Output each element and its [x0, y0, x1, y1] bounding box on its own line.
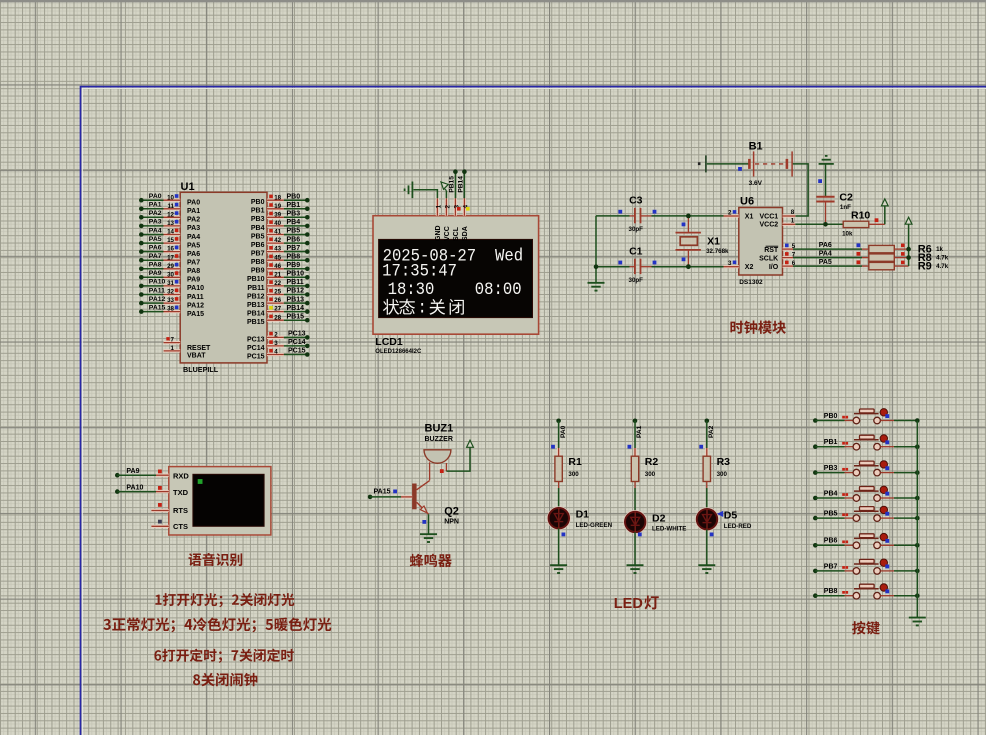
svg-text:PB5: PB5	[287, 228, 301, 235]
svg-text:SCLK: SCLK	[759, 255, 778, 262]
capacitor C3 30pF	[596, 195, 724, 234]
voice module pin RTS stub	[151, 503, 168, 511]
svg-text:300: 300	[645, 471, 656, 478]
LCD1 screen text line 4: status closed	[383, 298, 464, 318]
svg-text:PA15: PA15	[374, 489, 391, 496]
svg-text:PA8: PA8	[149, 262, 162, 269]
U1 pin 12 / net PA2 wire	[139, 210, 200, 224]
U1 pin 28 / net PB15 wire	[247, 313, 310, 326]
svg-text:PB8: PB8	[824, 588, 838, 595]
svg-text:32: 32	[167, 289, 174, 296]
wire net PB14 to LCD SDA	[463, 172, 465, 199]
power terminal (buzzer)	[446, 440, 473, 471]
net PA0 wire to R1	[551, 419, 567, 457]
svg-text:30pF: 30pF	[629, 226, 644, 233]
svg-text:PB8: PB8	[251, 259, 265, 266]
svg-text:39: 39	[274, 211, 281, 218]
svg-text:LED-GREEN: LED-GREEN	[576, 522, 613, 529]
svg-text:D2: D2	[652, 512, 666, 524]
svg-text:I/O: I/O	[769, 264, 779, 271]
svg-text:DS1302: DS1302	[739, 279, 763, 286]
push button PB8	[813, 584, 920, 599]
svg-text:2: 2	[445, 205, 452, 209]
U6 pin 8 (VCC1)	[783, 209, 796, 216]
LCD1 pin 1 GND	[435, 198, 443, 241]
svg-text:300: 300	[717, 471, 728, 478]
wire R2 to D2	[634, 482, 636, 512]
svg-text:PA4: PA4	[187, 234, 200, 241]
svg-text:RESET: RESET	[187, 345, 211, 352]
svg-text:43: 43	[274, 246, 281, 253]
svg-text:PB9: PB9	[287, 262, 301, 269]
svg-text:32.768k: 32.768k	[706, 248, 729, 255]
U1 pin 15 / net PA5 wire	[139, 236, 200, 250]
svg-text:PC15: PC15	[247, 353, 265, 360]
svg-text:C2: C2	[839, 191, 853, 203]
push button PB5	[813, 506, 920, 521]
svg-text:08:00: 08:00	[475, 279, 522, 299]
svg-text:PA10: PA10	[149, 279, 166, 286]
svg-text:4.7k: 4.7k	[936, 254, 949, 261]
wire B1 to U6 VCC1	[793, 164, 808, 216]
svg-text:PA6: PA6	[149, 244, 162, 251]
svg-text:PA4: PA4	[149, 227, 162, 234]
U1 pin 45 / net PB8 wire	[251, 253, 310, 266]
svg-text:14: 14	[167, 229, 174, 236]
svg-text:NPN: NPN	[444, 518, 459, 525]
U1 pin 26 / net PB13 wire	[247, 296, 310, 309]
svg-text:1nF: 1nF	[840, 204, 851, 211]
svg-text:PB14: PB14	[247, 311, 265, 318]
voice module pin RXD / net PA9 wire	[115, 468, 169, 478]
U6 pin 1 (VCC2) wire to R10	[783, 217, 844, 226]
label buzzer	[410, 554, 452, 567]
LCD1 pin 3 SCL	[453, 198, 461, 241]
svg-text:BUZZER: BUZZER	[425, 436, 453, 443]
svg-text:3.6V: 3.6V	[749, 180, 763, 187]
wire C3-C1 left junction to ground	[594, 216, 599, 283]
U1 pin 39 / net PB3 wire	[251, 211, 310, 224]
resistor R8 4.7k	[862, 252, 949, 264]
capacitor C2 1nF	[816, 191, 853, 211]
power terminal (LCD VCC)	[445, 191, 447, 199]
resistor R2 300	[631, 456, 658, 482]
svg-text:PB1: PB1	[287, 202, 301, 209]
svg-text:4: 4	[274, 349, 278, 356]
ground (buzzer)	[420, 534, 437, 542]
svg-text:29: 29	[167, 263, 174, 270]
net PA15 wire to Q2 base	[368, 489, 412, 500]
U1 pin 29 / net PA8 wire	[139, 262, 200, 276]
svg-text:PB1: PB1	[251, 208, 265, 215]
svg-text:C1: C1	[629, 245, 643, 257]
wire ground to C2	[825, 164, 827, 196]
svg-text:RTS: RTS	[173, 506, 188, 515]
net PA2 wire to R3	[699, 419, 715, 457]
svg-text:PB3: PB3	[287, 211, 301, 218]
svg-text:LED-WHITE: LED-WHITE	[652, 526, 686, 533]
U1 pin 13 / net PA3 wire	[139, 219, 200, 233]
svg-text:B1: B1	[749, 141, 763, 153]
svg-text:PB14: PB14	[458, 176, 465, 193]
U1 pin 27 / net PB14 wire	[247, 305, 310, 318]
svg-text:2: 2	[274, 332, 278, 339]
svg-text:PB8: PB8	[287, 253, 301, 260]
label voice recognition	[188, 553, 242, 566]
wire R1 to D1	[558, 482, 560, 509]
resistor R10 10k	[842, 209, 885, 237]
svg-text:PA10: PA10	[126, 484, 143, 491]
U1 pin 1 VBAT	[164, 345, 207, 360]
svg-text:PB15: PB15	[287, 313, 305, 320]
svg-text:SCL: SCL	[453, 226, 460, 241]
svg-text:PB14: PB14	[287, 305, 305, 312]
U1 pin 17 / net PA7 wire	[139, 253, 200, 267]
svg-text:LED-RED: LED-RED	[724, 523, 752, 530]
U1 pin 41 / net PB5 wire	[251, 228, 310, 241]
U6 pin 5 / net PA6 wire to R6	[783, 242, 863, 250]
power terminal (R10)	[881, 199, 888, 224]
svg-text:R1: R1	[568, 456, 582, 468]
rtc U6 DS1302	[739, 195, 783, 286]
power terminal (resistor pack)	[905, 217, 912, 224]
net PA1 wire to R2	[628, 419, 644, 457]
label keys	[852, 621, 880, 635]
instruction line 2	[103, 617, 331, 632]
svg-text:X1: X1	[707, 236, 720, 248]
U1 pin 21 / net PB10 wire	[247, 271, 310, 284]
svg-text:VCC: VCC	[444, 226, 451, 241]
wire LCD GND to ground	[414, 190, 438, 199]
svg-text:PA0: PA0	[149, 193, 162, 200]
U6 pin 2 (X1)	[724, 209, 739, 216]
U1 pin 3 / net PC14 wire	[247, 339, 310, 352]
svg-text:PA6: PA6	[187, 251, 200, 258]
svg-text:PA1: PA1	[636, 425, 643, 438]
svg-text:1: 1	[436, 205, 443, 209]
svg-text:X2: X2	[745, 264, 754, 271]
svg-text:PB15: PB15	[247, 319, 265, 326]
instruction line 4	[193, 673, 257, 686]
svg-text:PA3: PA3	[149, 219, 162, 226]
svg-text:25: 25	[274, 289, 281, 296]
U1 pin 19 / net PB1 wire	[251, 202, 310, 215]
wire D1 to ground	[559, 528, 566, 565]
wire Q2 emitter to ground	[428, 514, 430, 534]
U1 pin 31 / net PA10 wire	[139, 279, 204, 293]
svg-text:PB5: PB5	[251, 233, 265, 240]
svg-text:PB11: PB11	[247, 285, 264, 292]
svg-text:PA2: PA2	[708, 425, 715, 438]
ground (C2 top, inverted)	[819, 156, 834, 164]
crystal X1 32.768k	[676, 214, 730, 270]
ground (crystal caps)	[588, 283, 605, 291]
svg-text:13: 13	[167, 220, 174, 227]
U1 pin 4 / net PC15 wire	[247, 348, 310, 361]
svg-text:PA9: PA9	[149, 270, 162, 277]
svg-text:PA6: PA6	[819, 242, 832, 249]
svg-text:LED: LED	[614, 596, 643, 612]
svg-text:C3: C3	[629, 195, 643, 207]
transistor Q2 NPN	[412, 481, 459, 526]
svg-text:3: 3	[274, 340, 278, 347]
svg-text:10: 10	[167, 194, 174, 201]
wire button bus to ground	[916, 421, 918, 618]
U1 pin 43 / net PB7 wire	[251, 245, 310, 258]
U1 pin 33 / net PA12 wire	[139, 296, 204, 310]
U1 pin 30 / net PA9 wire	[139, 270, 200, 284]
svg-text:R3: R3	[717, 456, 731, 468]
svg-text:40: 40	[274, 220, 281, 227]
svg-text:PA1: PA1	[187, 208, 200, 215]
capacitor C1 30pF	[596, 245, 724, 284]
label clock module	[730, 321, 785, 334]
svg-text:LCD1: LCD1	[375, 336, 403, 348]
svg-text:PB13: PB13	[287, 296, 305, 303]
svg-text:3: 3	[728, 260, 732, 267]
svg-text:PA11: PA11	[149, 287, 165, 294]
LCD1 screen text line 1: 2025-08-27 Wed	[383, 246, 523, 266]
svg-text:42: 42	[274, 237, 281, 244]
svg-text:PA10: PA10	[187, 285, 204, 292]
push button PB1	[813, 435, 920, 450]
svg-text:PB10: PB10	[287, 271, 305, 278]
svg-text:38: 38	[167, 306, 174, 313]
wire net PB15 to LCD SCL	[454, 172, 456, 199]
U1 pin 16 / net PA6 wire	[139, 244, 200, 258]
svg-text:CTS: CTS	[173, 522, 188, 531]
svg-text:11: 11	[167, 203, 174, 210]
U6 pin 3 (X2)	[724, 260, 739, 267]
svg-text:PA12: PA12	[149, 296, 166, 303]
U1 pin 25 / net PB12 wire	[247, 288, 310, 301]
svg-text:PB7: PB7	[824, 563, 838, 570]
svg-text:30pF: 30pF	[629, 277, 644, 284]
svg-text:PC14: PC14	[288, 339, 306, 346]
svg-text:22: 22	[274, 280, 281, 287]
ground (D1)	[550, 565, 567, 573]
svg-text::: :	[418, 298, 427, 318]
U1 pin 10 / net PA0 wire	[139, 193, 200, 207]
svg-text:D1: D1	[576, 509, 590, 521]
push button PB3	[813, 461, 920, 476]
resistor R9 4.7k	[862, 261, 949, 273]
U1 pin 38 / net PA15 wire	[139, 304, 204, 318]
svg-text:U6: U6	[740, 195, 754, 207]
voice recognition module	[169, 467, 271, 535]
svg-text:PB3: PB3	[824, 465, 838, 472]
U1 pin 22 / net PB11 wire	[247, 279, 309, 292]
U6 pin 6 / net PA5 wire to R9	[783, 259, 863, 267]
svg-text:10k: 10k	[842, 230, 853, 237]
svg-text:30: 30	[167, 271, 174, 278]
U1 pin 2 / net PC13 wire	[247, 331, 310, 344]
svg-text:PB6: PB6	[251, 242, 265, 249]
svg-text:41: 41	[274, 229, 281, 236]
U1 pin 32 / net PA11 wire	[139, 287, 204, 301]
svg-text:PB9: PB9	[251, 268, 265, 275]
svg-text:PA2: PA2	[149, 210, 162, 217]
svg-text:PA0: PA0	[187, 200, 200, 207]
U1 pin 18 / net PB0 wire	[251, 193, 310, 206]
svg-text:PA2: PA2	[187, 217, 200, 224]
svg-text:PB1: PB1	[824, 439, 838, 446]
svg-text:27: 27	[274, 306, 281, 313]
LCD1 screen text line 3: 18:30 08:00	[388, 279, 522, 299]
led D2 LED-WHITE	[624, 511, 686, 533]
instruction line 3	[154, 649, 293, 663]
svg-text:PA3: PA3	[187, 225, 200, 232]
svg-text:19: 19	[274, 203, 281, 210]
svg-text:RST: RST	[764, 247, 779, 254]
svg-text:PA1: PA1	[149, 202, 162, 209]
svg-text:PB4: PB4	[824, 490, 838, 497]
svg-text:PB0: PB0	[287, 193, 301, 200]
svg-text:PC13: PC13	[288, 331, 306, 338]
U1 pin 7 RESET	[164, 337, 211, 353]
svg-text:PA9: PA9	[187, 277, 200, 284]
LCD1 pin 2 VCC	[444, 198, 452, 241]
LCD1 pin 4 SDA	[462, 198, 470, 241]
svg-text:RXD: RXD	[173, 471, 189, 480]
svg-text:PB10: PB10	[247, 276, 265, 283]
U6 pin 7 / net PA4 wire to R8	[783, 251, 863, 259]
svg-text:18:30: 18:30	[388, 279, 435, 299]
svg-text:PB12: PB12	[247, 293, 265, 300]
push button PB7	[813, 559, 920, 574]
svg-text:2: 2	[728, 209, 732, 216]
svg-text:PB0: PB0	[824, 413, 838, 420]
wire D2 to ground	[635, 532, 642, 565]
svg-text:PA9: PA9	[126, 468, 139, 475]
svg-text:PA8: PA8	[187, 268, 200, 275]
svg-text:31: 31	[167, 280, 174, 287]
svg-text:8: 8	[791, 209, 795, 216]
svg-text:300: 300	[568, 471, 579, 478]
svg-text:26: 26	[274, 297, 281, 304]
svg-text:PA15: PA15	[149, 304, 166, 311]
wire R3 to D5	[706, 482, 708, 510]
svg-text:PC15: PC15	[288, 348, 306, 355]
svg-text:15: 15	[167, 237, 174, 244]
svg-text:U1: U1	[181, 181, 195, 193]
push button PB0	[813, 409, 920, 424]
push button PB4	[813, 486, 920, 501]
svg-text:PB7: PB7	[251, 251, 265, 258]
svg-text:R2: R2	[645, 456, 659, 468]
mcu U1 BLUEPILL	[180, 181, 267, 374]
svg-text:18: 18	[274, 194, 281, 201]
svg-text:X1: X1	[745, 213, 754, 220]
svg-text:46: 46	[274, 263, 281, 270]
svg-text:PA12: PA12	[187, 302, 204, 309]
svg-text:SDA: SDA	[462, 226, 469, 241]
svg-text:PB6: PB6	[824, 538, 838, 545]
svg-text:R10: R10	[851, 209, 870, 221]
svg-text:OLED128664I2C: OLED128664I2C	[375, 349, 422, 355]
svg-text:PB4: PB4	[251, 225, 265, 232]
U1 pin 42 / net PB6 wire	[251, 236, 310, 249]
wire C2 to VCC2 node	[825, 202, 827, 225]
svg-text:PB15: PB15	[449, 176, 456, 193]
svg-text:17: 17	[167, 254, 174, 261]
svg-text:PB6: PB6	[287, 236, 301, 243]
svg-text:R9: R9	[918, 261, 932, 273]
wire D5 to ground	[707, 529, 714, 565]
led D1 LED-GREEN	[548, 507, 613, 529]
svg-text:45: 45	[274, 254, 281, 261]
svg-text:21: 21	[274, 271, 281, 278]
svg-text:1: 1	[791, 217, 795, 224]
resistor R6 1k	[862, 243, 944, 255]
svg-text:VBAT: VBAT	[187, 353, 206, 360]
svg-text:BUZ1: BUZ1	[425, 422, 454, 434]
svg-text:1: 1	[171, 345, 175, 352]
ground (D5)	[698, 565, 715, 573]
battery B1 3.6V	[698, 141, 792, 187]
voice module pin TXD / net PA10 wire	[115, 484, 169, 494]
svg-text:1k: 1k	[936, 246, 943, 253]
svg-text:28: 28	[274, 314, 281, 321]
svg-text:PA7: PA7	[187, 260, 200, 267]
svg-text:Q2: Q2	[444, 505, 459, 517]
svg-text:TXD: TXD	[173, 488, 189, 497]
resistor R1 300	[555, 456, 582, 482]
svg-text:33: 33	[167, 297, 174, 304]
svg-text:PB3: PB3	[251, 216, 265, 223]
instruction line 1	[155, 593, 294, 607]
ground (buttons)	[909, 618, 926, 626]
svg-text:PA7: PA7	[149, 253, 162, 260]
svg-text:PB4: PB4	[287, 219, 301, 226]
svg-text:PA5: PA5	[149, 236, 162, 243]
voice module pin CTS stub	[151, 520, 168, 527]
display LCD1 OLED128664I2C	[373, 216, 539, 355]
svg-text:PA5: PA5	[819, 259, 832, 266]
svg-text:PA15: PA15	[187, 311, 204, 318]
svg-text:PA4: PA4	[819, 251, 832, 258]
svg-text:PB5: PB5	[824, 511, 838, 518]
svg-text:VCC2: VCC2	[760, 222, 779, 229]
push button PB6	[813, 533, 920, 548]
wire resistor pack bus to power	[906, 224, 911, 266]
svg-text:16: 16	[167, 246, 174, 253]
svg-text:PB0: PB0	[251, 199, 265, 206]
svg-text:PB11: PB11	[287, 279, 304, 286]
ground (D2)	[627, 565, 644, 573]
led D5 LED-RED	[696, 508, 752, 530]
U1 pin 11 / net PA1 wire	[139, 202, 200, 216]
svg-text:17:35:47: 17:35:47	[382, 261, 457, 281]
ground (LCD)	[405, 182, 413, 199]
svg-text:PB7: PB7	[287, 245, 301, 252]
svg-text:VCC1: VCC1	[760, 213, 779, 220]
svg-text:PA0: PA0	[560, 425, 567, 438]
svg-text:PB12: PB12	[287, 288, 305, 295]
U1 pin 14 / net PA4 wire	[139, 227, 200, 241]
U1 pin 46 / net PB9 wire	[251, 262, 310, 275]
buzzer BUZ1	[424, 422, 453, 480]
svg-text:BLUEPILL: BLUEPILL	[183, 365, 219, 374]
svg-text:12: 12	[167, 211, 174, 218]
svg-text:PA5: PA5	[187, 242, 200, 249]
svg-text:PB13: PB13	[247, 302, 265, 309]
svg-text:7: 7	[171, 337, 175, 344]
resistor R3 300	[703, 456, 730, 482]
svg-text:Wed: Wed	[495, 246, 523, 266]
svg-text:4.7k: 4.7k	[936, 263, 949, 270]
svg-text:PA11: PA11	[187, 294, 204, 301]
